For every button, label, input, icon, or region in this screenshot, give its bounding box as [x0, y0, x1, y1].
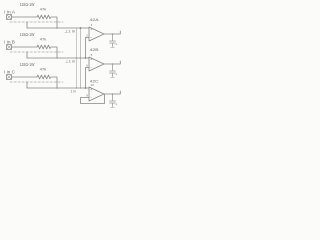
output wire U1: [104, 31, 120, 34]
svg-text:+: +: [115, 73, 117, 77]
junction: [56, 57, 57, 58]
svg-text:47k: 47k: [40, 38, 47, 42]
capacitor C2: [110, 64, 116, 77]
resistor R1: [37, 15, 51, 19]
guard line A: [27, 27, 89, 29]
output wire U2: [104, 61, 120, 64]
svg-text:+: +: [115, 103, 117, 107]
svg-text:I in A: I in A: [4, 10, 15, 15]
svg-text:115Ω-1W: 115Ω-1W: [20, 62, 35, 67]
wire: [51, 77, 57, 88]
inverting input wire U1: [86, 38, 90, 59]
junction: [56, 87, 57, 88]
svg-text:+: +: [115, 43, 117, 47]
shield stub C: [26, 82, 28, 88]
shield dashed line A: [10, 21, 63, 23]
svg-text:I in C: I in C: [4, 70, 15, 75]
resistor R3: [37, 75, 51, 79]
shield stub A: [26, 22, 28, 28]
resistor R2: [37, 45, 51, 49]
shield stub B: [26, 52, 28, 58]
node dots: [80, 27, 82, 29]
junction: [56, 27, 57, 28]
svg-text:I in B: I in B: [4, 40, 15, 45]
svg-text:10: 10: [91, 83, 95, 87]
svg-text:⊥1 in: ⊥1 in: [65, 60, 75, 64]
svg-text:42A: 42A: [90, 17, 99, 22]
svg-text:42B: 42B: [90, 47, 99, 52]
terminal J2: [7, 45, 12, 50]
wire B: [12, 46, 38, 48]
svg-text:115Ω-1W: 115Ω-1W: [20, 32, 35, 37]
inverting input wire U2: [86, 68, 90, 89]
shield dashed line C: [10, 81, 63, 83]
wire A: [12, 16, 38, 18]
terminal J3: [7, 75, 12, 80]
shield dashed line B: [10, 51, 63, 53]
guard line C: [27, 87, 89, 89]
capacitor C1: [110, 34, 116, 47]
bus wire: [80, 28, 82, 88]
svg-text:115Ω-1W: 115Ω-1W: [20, 2, 35, 7]
output wire U3: [104, 91, 120, 94]
wire C: [12, 76, 38, 78]
bus wire: [76, 28, 78, 88]
wire: [51, 47, 57, 58]
capacitor C3: [110, 94, 116, 107]
svg-text:47k: 47k: [40, 68, 47, 72]
feedback wire U3: [81, 94, 105, 104]
guard line B: [27, 57, 89, 59]
svg-text:1 in: 1 in: [71, 90, 77, 94]
svg-text:47k: 47k: [40, 8, 47, 12]
wire: [51, 17, 57, 28]
svg-text:⊥1 in: ⊥1 in: [64, 30, 75, 34]
terminal J1: [7, 15, 12, 20]
